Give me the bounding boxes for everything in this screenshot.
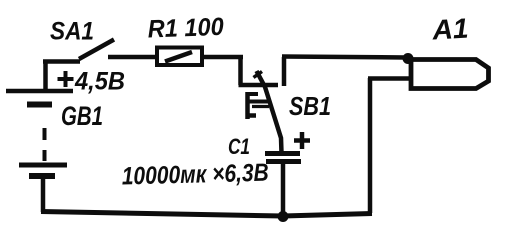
pushbutton SB1 link line lower xyxy=(252,105,269,108)
polarity plus of battery (+4,5V) xyxy=(58,71,74,87)
svg-text:4,5В: 4,5В xyxy=(74,68,125,96)
capacitor C1 bottom plate xyxy=(266,159,301,164)
device A1 body xyxy=(411,60,489,89)
svg-text:C1: C1 xyxy=(228,134,250,159)
wire: bottom rail xyxy=(41,212,372,217)
pushbutton SB1 link line upper xyxy=(249,100,271,104)
pushbutton SB1 moving contact diagonal xyxy=(257,71,282,153)
pushbutton SB1 bracket top prong xyxy=(246,92,258,96)
capacitor C1 top plate xyxy=(265,151,300,156)
battery GB1 cell1 short plate xyxy=(27,102,52,108)
svg-text:SA1: SA1 xyxy=(50,18,94,46)
wire: A1 lower-left lead xyxy=(368,76,412,81)
junction dot at top rail / A1 xyxy=(403,53,414,64)
pushbutton SB1 button bracket spine xyxy=(245,92,250,119)
wire: C1 bottom lead xyxy=(281,164,286,216)
resistor R1 body xyxy=(157,48,202,66)
pushbutton SB1 bracket bottom foot xyxy=(246,113,256,118)
polarity plus of capacitor C1 xyxy=(294,132,310,149)
svg-text:10000мк ×6,3В: 10000мк ×6,3В xyxy=(121,159,269,191)
wire: SB1 right terminal up xyxy=(282,57,287,86)
battery GB1 dashed link dash 1 xyxy=(43,128,47,140)
wire: R1 right lead xyxy=(201,55,243,60)
wire: battery top to SA1 left contact xyxy=(43,59,80,64)
pushbutton SB1 actuator tick xyxy=(254,72,263,78)
switch SA1 blade xyxy=(79,40,114,60)
svg-text:R1 100: R1 100 xyxy=(147,13,224,44)
junction dot at C1 / bottom rail xyxy=(278,211,289,222)
svg-text:GB1: GB1 xyxy=(61,101,103,131)
wire: battery positive lead down xyxy=(43,60,48,92)
wire: SB1 fixed contact bar xyxy=(239,83,279,88)
wire: SA1 right contact to resistor R1 xyxy=(108,55,158,60)
wire: top rail SB1 to A1 xyxy=(282,57,406,58)
svg-text:A1: A1 xyxy=(431,13,470,46)
wire: right vertical from bottom rail up to A1 xyxy=(368,78,373,213)
battery GB1 cell2 short plate xyxy=(29,173,55,179)
battery GB1 cell2 long plate xyxy=(19,163,67,168)
wire: down leg to SB1 fixed contact xyxy=(238,57,243,85)
battery GB1 dashed link dash 2 xyxy=(43,150,47,161)
svg-text:SB1: SB1 xyxy=(289,91,331,121)
battery GB1 cell1 long plate xyxy=(6,89,73,94)
wire: battery negative lead down xyxy=(41,178,46,212)
resistor R1 slash mark xyxy=(165,52,192,62)
